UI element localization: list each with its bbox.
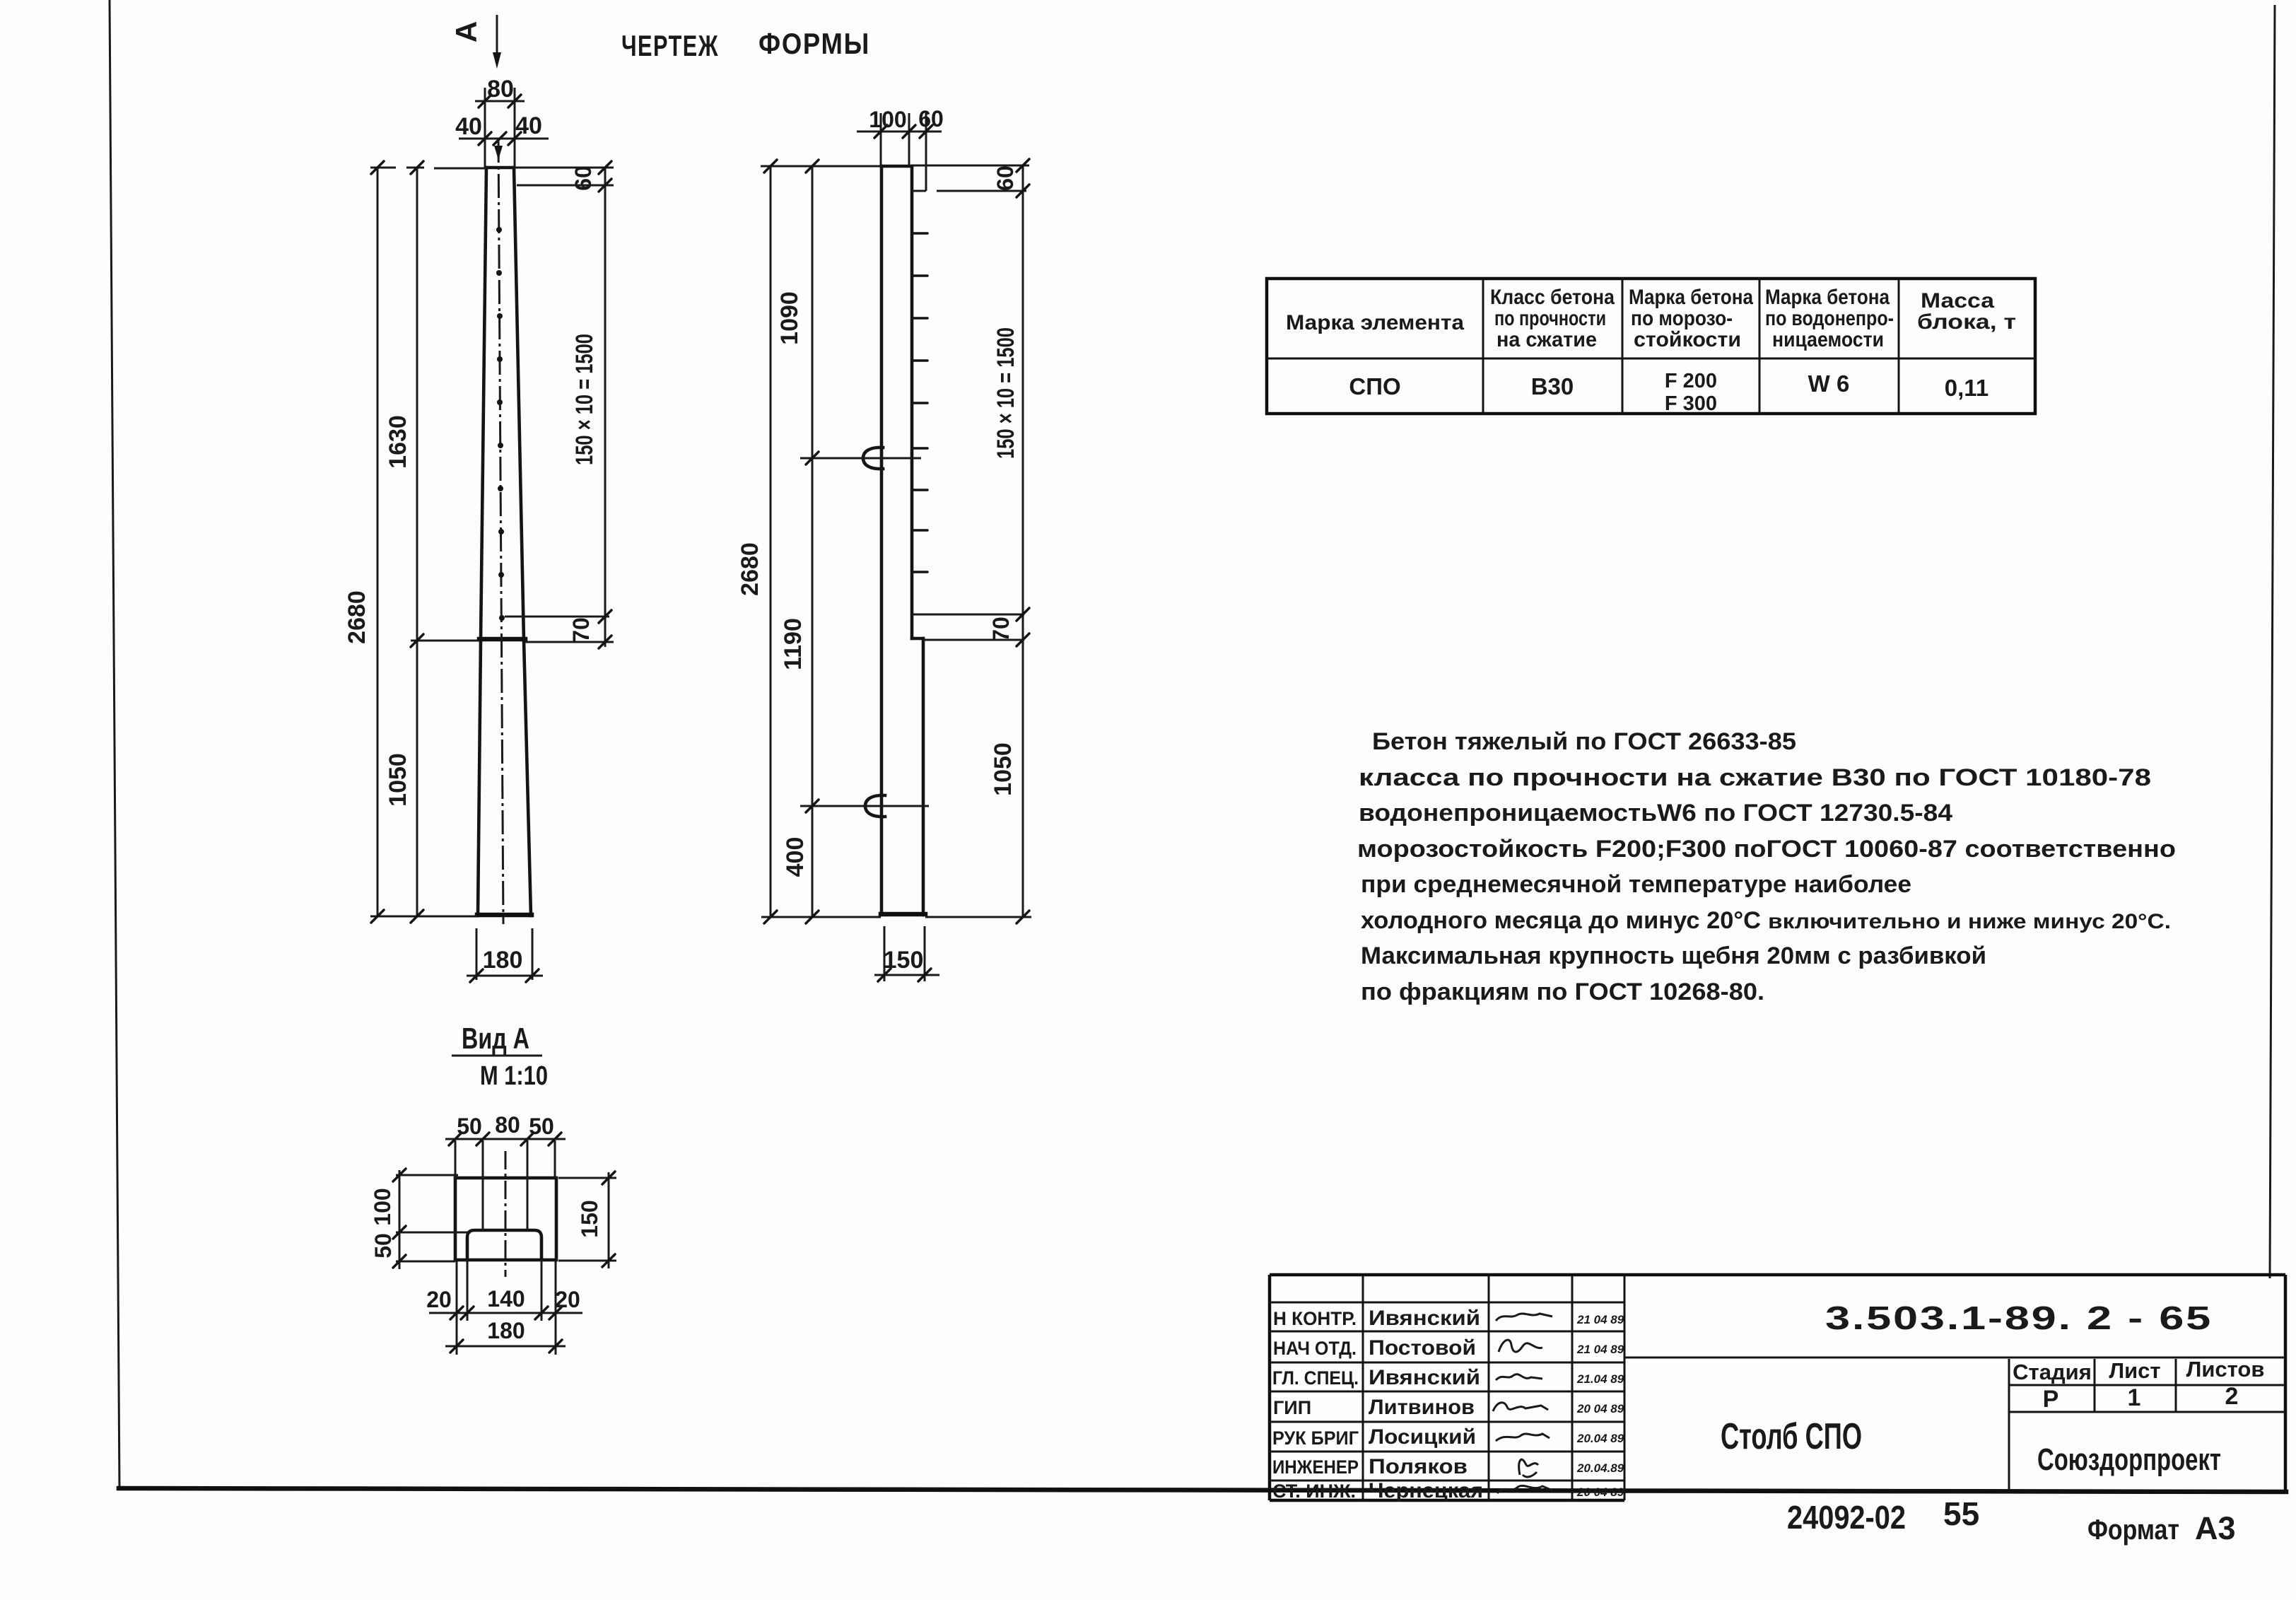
page right border [2270,5,2275,1278]
left dim line [399,1170,401,1269]
svg-text:ИНЖЕНЕР: ИНЖЕНЕР [1272,1456,1359,1478]
svg-text:Стадия: Стадия [2013,1360,2092,1384]
ticks 180 view [450,1340,562,1353]
ticks top 100/60 [874,125,932,138]
svg-text:класса по прочности на сжатие: класса по прочности на сжатие В30 по ГОС… [1359,764,2151,791]
signature table verticals [1363,1275,1624,1500]
svg-text:100: 100 [370,1188,395,1225]
svg-text:СТ. ИНЖ.: СТ. ИНЖ. [1272,1481,1356,1502]
top dim 40/40 [459,138,549,140]
ticks top dims [479,95,521,145]
svg-text:водонепроницаемостьW6 по ГОСТ: водонепроницаемостьW6 по ГОСТ 12730.5-84 [1359,800,1952,827]
svg-text:60: 60 [918,106,944,132]
signature table rows [1270,1302,1624,1481]
svg-text:Класс бетона: Класс бетона [1490,286,1615,309]
svg-text:1630: 1630 [385,415,411,469]
page bottom border [119,1488,2286,1492]
bottom dim 180 extension verticals [476,928,532,980]
svg-text:80: 80 [495,1112,520,1138]
svg-text:2680: 2680 [344,590,370,644]
form joint line at 1630 [479,637,525,642]
svg-text:Масса: Масса [1921,289,1994,313]
svg-text:В30: В30 [1531,373,1574,399]
ticks left [393,1169,406,1268]
svg-text:ницаемости: ницаемости [1772,328,1884,351]
svg-text:Листов: Листов [2186,1357,2265,1382]
svg-text:150: 150 [884,947,924,974]
section mark A with arrow [450,15,501,69]
svg-text:Марка бетона: Марка бетона [1765,286,1890,309]
ticks 150 [878,969,931,981]
svg-text:2: 2 [2225,1383,2239,1410]
ticks right [602,1172,615,1267]
svg-text:20.04 89: 20.04 89 [1576,1432,1624,1445]
svg-text:100: 100 [869,107,906,132]
post bottom edge side view [881,912,925,917]
dim ticks drawing 1 [371,161,611,923]
bottom dim line 150 [874,974,939,976]
drawing title: ЧЕРТЕЖ ФОРМЫ [621,27,870,62]
dates column [1576,1313,1624,1499]
svg-text:20.04.89: 20.04.89 [1576,1461,1624,1475]
svg-text:Р: Р [2043,1386,2059,1413]
top extension verticals [485,88,515,168]
svg-text:1050: 1050 [385,753,411,807]
svg-text:50: 50 [529,1114,554,1139]
dimension line 2680 [377,168,379,916]
post outline (side view) [881,166,923,915]
table column lines [1483,279,1899,414]
top extension right [912,165,1029,167]
svg-text:Максимальная крупность щебня 2: Максимальная крупность щебня 20мм с разб… [1361,942,1986,969]
dimension chain 1630/1050 [416,168,418,916]
bottom dim line 20/140/20 [429,1312,582,1314]
svg-text:150 × 10 = 1500: 150 × 10 = 1500 [571,334,598,465]
dimension line 2680 side [770,166,772,917]
svg-text:Марка элемента: Марка элемента [1286,311,1464,334]
svg-text:СПО: СПО [1349,373,1400,399]
section outer rect [455,1178,556,1260]
svg-text:ГИП: ГИП [1273,1397,1311,1418]
svg-text:21.04 89: 21.04 89 [1576,1372,1624,1386]
svg-text:150 × 10 = 1500: 150 × 10 = 1500 [992,327,1019,459]
form joint ticks on right edge [912,233,927,572]
svg-text:F 300: F 300 [1665,392,1717,415]
extension 60 right [910,190,1026,192]
svg-text:ФОРМЫ: ФОРМЫ [758,27,870,60]
svg-text:РУК БРИГ: РУК БРИГ [1272,1427,1359,1449]
signature scribbles [1493,1314,1552,1493]
svg-text:60: 60 [570,165,596,191]
svg-text:по прочности: по прочности [1494,307,1606,330]
svg-text:20: 20 [426,1287,452,1312]
svg-text:55: 55 [1943,1495,1979,1532]
divider under document number [1624,1357,2285,1359]
top dim 80 [475,100,525,103]
svg-text:НАЧ ОТД.: НАЧ ОТД. [1273,1338,1357,1359]
top dim line 50/80/50 [445,1138,566,1140]
svg-text:Союздорпроект: Союздорпроект [2037,1442,2221,1477]
svg-text:Вид А: Вид А [462,1022,529,1055]
svg-text:20: 20 [555,1287,580,1312]
extension line at joint [411,640,479,642]
svg-text:180: 180 [483,947,523,974]
svg-text:3.503.1-89. 2 - 65: 3.503.1-89. 2 - 65 [1825,1300,2213,1336]
svg-text:по морозо-: по морозо- [1631,307,1733,330]
extension 70 end [923,639,1024,641]
svg-text:50: 50 [370,1233,396,1259]
svg-text:при среднемесячной температуре: при среднемесячной температуре наиболее [1361,871,1911,898]
right dimension line side [1022,165,1024,917]
extension line bottom [370,916,478,918]
svg-text:Литвинов: Литвинов [1369,1396,1475,1419]
stage table box [2009,1359,2285,1490]
svg-text:Постовой: Постовой [1369,1336,1476,1360]
ext verticals below [457,1260,556,1355]
centerline arrowhead [494,146,503,160]
title block outer frame [1270,1275,2285,1500]
svg-text:80: 80 [487,76,514,103]
top extension left [761,165,881,168]
svg-text:20 04 89: 20 04 89 [1576,1402,1624,1415]
svg-text:Поляков: Поляков [1369,1455,1468,1478]
svg-text:Ивянский: Ивянский [1369,1366,1480,1389]
right ext lines [558,1178,616,1261]
left ext lines [396,1175,471,1261]
svg-text:400: 400 [782,837,809,877]
svg-text:Столб СПО: Столб СПО [1721,1416,1862,1457]
svg-text:стойкости: стойкости [1634,328,1741,351]
table data row [1349,370,1988,415]
svg-text:А: А [450,21,483,42]
svg-text:40: 40 [515,112,542,139]
svg-text:Чернецкая: Чернецкая [1369,1479,1483,1502]
post outline (front view) [478,168,531,916]
extension 1500 end [912,614,1024,616]
svg-text:70: 70 [568,617,594,643]
svg-text:по фракциям по ГОСТ 10268-80.: по фракциям по ГОСТ 10268-80. [1361,979,1764,1005]
svg-text:50: 50 [457,1114,482,1139]
svg-text:70: 70 [988,617,1014,642]
lifting loop lower [865,795,885,817]
svg-text:ЧЕРТЕЖ: ЧЕРТЕЖ [621,29,719,62]
right dim line [608,1172,610,1268]
ticks 20/140/20 [450,1307,562,1319]
outer ext verticals above [455,1140,555,1178]
svg-text:150: 150 [577,1200,602,1237]
underline [452,1055,542,1057]
svg-text:Ивянский: Ивянский [1369,1307,1480,1330]
svg-text:1090: 1090 [776,291,803,345]
right dimension line 60/1500/70 [604,168,607,647]
svg-text:Бетон тяжелый по ГОСТ 26633-85: Бетон тяжелый по ГОСТ 26633-85 [1372,728,1796,755]
loop axis line upper [800,457,921,460]
svg-text:0,11: 0,11 [1945,375,1988,401]
svg-text:60: 60 [992,165,1018,191]
table header text [1286,286,2016,351]
svg-text:морозостойкость F200;F300 поГО: морозостойкость F200;F300 поГОСТ 10060-8… [1357,836,2176,863]
section inner key [467,1230,541,1260]
svg-text:21 04 89: 21 04 89 [1576,1343,1624,1356]
centerline of post (dash-dot) [498,139,503,924]
svg-text:на сжатие: на сжатие [1496,328,1597,351]
dim ticks drawing 2 [764,159,1029,923]
lifting loop upper [863,448,883,469]
ticks top [449,1133,561,1145]
post bottom edge [477,913,532,918]
signature rows text [1272,1308,1359,1502]
svg-text:1190: 1190 [780,618,807,670]
view centerline [505,1151,507,1277]
svg-text:180: 180 [487,1318,525,1343]
labels 50 80 50 [457,1112,554,1139]
top dim line 100/60 [857,131,942,133]
extension line 70 end [525,641,614,643]
svg-text:1: 1 [2128,1384,2141,1411]
svg-text:ГЛ. СПЕЦ.: ГЛ. СПЕЦ. [1272,1367,1359,1389]
svg-text:Марка бетона: Марка бетона [1629,286,1753,309]
svg-text:Лосицкий: Лосицкий [1369,1425,1476,1449]
bottom dim line 180 view [445,1345,566,1348]
svg-text:140: 140 [487,1286,525,1312]
extension line 1500 end [505,616,609,618]
svg-text:21 04 89: 21 04 89 [1576,1313,1624,1326]
svg-text:24092-02: 24092-02 [1787,1499,1906,1536]
labels 20 140 20 [426,1286,580,1312]
ticks 180 [470,969,539,982]
bottom dim 150 ext verticals [884,926,925,981]
extension line 60 [517,185,614,187]
table frame [1267,279,2035,414]
svg-text:2680: 2680 [737,542,763,596]
svg-text:М 1:10: М 1:10 [480,1061,548,1091]
bottom dim line 180 [467,975,543,977]
svg-text:W 6: W 6 [1808,370,1850,397]
bottom extension [761,916,1031,918]
top extension to right dim [515,167,614,169]
svg-text:Лист: Лист [2109,1358,2160,1383]
dimension chain 1090/1190/400 [812,166,814,917]
svg-text:F 200: F 200 [1665,370,1717,392]
svg-text:блока, т: блока, т [1917,310,2016,334]
page left border [110,0,119,1489]
table header divider [1267,358,2035,360]
extension line top [370,168,486,168]
svg-text:холодного месяца до минус 20°С: холодного месяца до минус 20°Свключитель… [1361,907,2171,934]
svg-text:по водонепро-: по водонепро- [1765,307,1894,330]
svg-text:Н КОНТР.: Н КОНТР. [1273,1308,1357,1329]
top ext verticals [881,113,926,191]
svg-text:ФорматА3: ФорматА3 [2087,1510,2236,1546]
svg-text:20 04 89: 20 04 89 [1576,1485,1624,1499]
loop axis line lower [800,805,929,807]
svg-text:40: 40 [455,113,482,140]
centerline hole dots [496,227,505,621]
svg-text:1050: 1050 [990,742,1017,796]
core verticals [483,1140,527,1230]
